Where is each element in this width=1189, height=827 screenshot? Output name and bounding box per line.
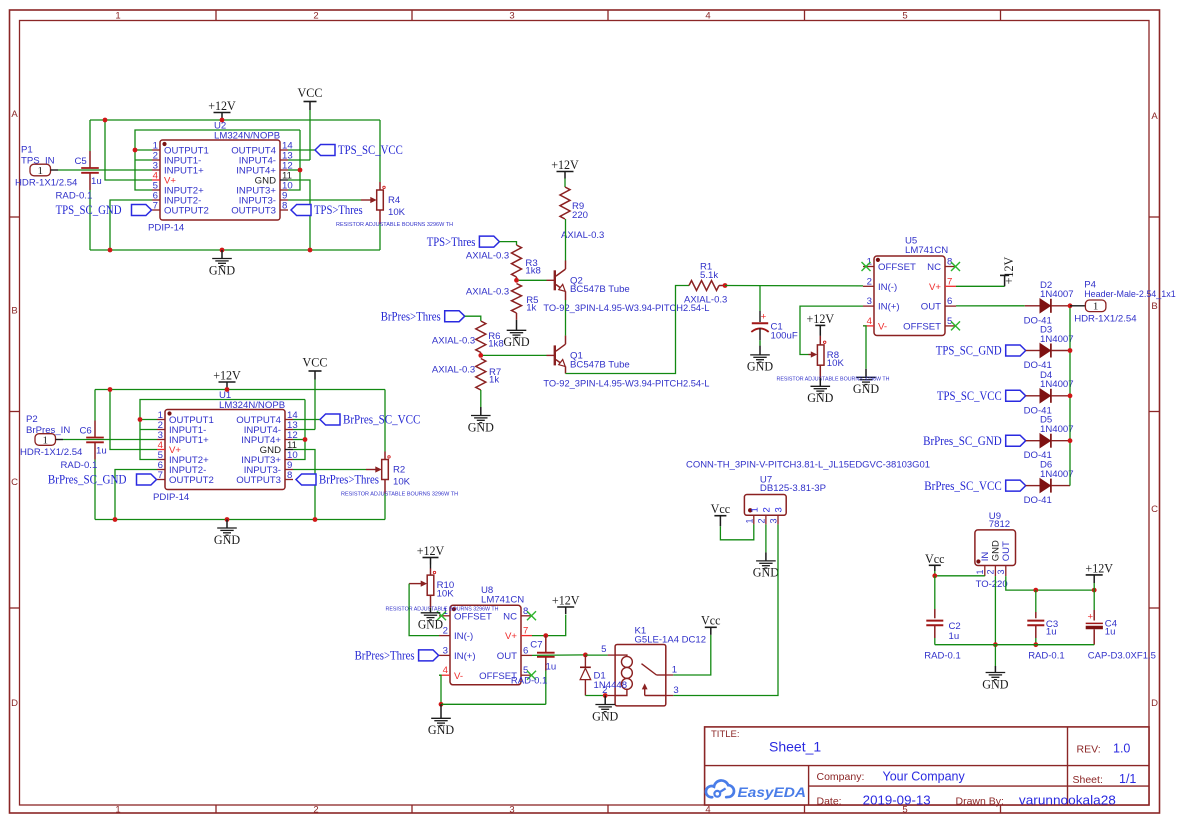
svg-text:2019-09-13: 2019-09-13 bbox=[863, 794, 931, 808]
no-connect X pin5 U5 bbox=[951, 321, 960, 330]
svg-text:GND: GND bbox=[982, 676, 1008, 691]
wire R1 to U5 IN- and C1 bbox=[725, 285, 863, 287]
svg-text:+12V: +12V bbox=[552, 593, 580, 608]
svg-text:PDIP-14: PDIP-14 bbox=[153, 492, 190, 503]
svg-text:IN(+): IN(+) bbox=[878, 302, 900, 313]
svg-text:TPS_SC_VCC: TPS_SC_VCC bbox=[338, 142, 403, 157]
wire Q1 emitter to R1 bbox=[566, 286, 690, 374]
svg-text:TITLE:: TITLE: bbox=[711, 729, 740, 740]
svg-text:AXIAL-0.3: AXIAL-0.3 bbox=[466, 251, 509, 262]
svg-text:1: 1 bbox=[42, 434, 48, 446]
node C4 top junction bbox=[1092, 588, 1097, 593]
ground R10 bbox=[418, 608, 443, 632]
svg-text:3: 3 bbox=[673, 685, 678, 696]
svg-text:+12V: +12V bbox=[208, 98, 236, 113]
svg-text:LM324N/NOPB: LM324N/NOPB bbox=[214, 131, 280, 142]
svg-text:C: C bbox=[11, 477, 18, 488]
svg-text:C5: C5 bbox=[75, 156, 87, 167]
svg-text:D: D bbox=[11, 698, 18, 709]
svg-text:1.0: 1.0 bbox=[1113, 742, 1130, 756]
wire U8 V+ to +12V bbox=[532, 615, 566, 636]
svg-text:1k8: 1k8 bbox=[525, 265, 540, 276]
svg-text:7: 7 bbox=[153, 201, 158, 212]
svg-text:+: + bbox=[761, 311, 767, 322]
diode D1 1N4448 bbox=[580, 655, 627, 695]
svg-text:TPS>Thres: TPS>Thres bbox=[314, 202, 363, 217]
svg-text:V+: V+ bbox=[929, 282, 941, 293]
svg-text:1: 1 bbox=[115, 805, 120, 816]
resistor R5 1k bbox=[466, 284, 539, 320]
svg-text:6: 6 bbox=[523, 645, 528, 656]
svg-text:1N4007: 1N4007 bbox=[1040, 424, 1074, 435]
resistor R3 1k8 bbox=[466, 245, 541, 280]
svg-text:10K: 10K bbox=[437, 588, 455, 599]
svg-text:TO-92_3PIN-L4.95-W3.94-PITCH2.: TO-92_3PIN-L4.95-W3.94-PITCH2.54-L bbox=[543, 378, 709, 389]
capacitor C5 bbox=[56, 151, 102, 201]
label TO-92 Q1 bbox=[543, 378, 709, 389]
ground U5 V- bbox=[853, 369, 879, 396]
potentiometer R2 10K bbox=[341, 452, 458, 498]
net flag BrPres>Thres to R6 bbox=[381, 308, 465, 323]
svg-text:VCC: VCC bbox=[298, 85, 323, 100]
U1 section wires bbox=[63, 380, 385, 520]
svg-text:1k: 1k bbox=[526, 303, 536, 314]
op-amp U5 LM741CN bbox=[863, 236, 956, 336]
wire Vcc to U9 IN bbox=[935, 571, 985, 576]
svg-text:1: 1 bbox=[749, 507, 760, 512]
U2 junction dots bbox=[103, 118, 313, 253]
svg-text:RESISTOR ADJUSTABLE BOURNS 329: RESISTOR ADJUSTABLE BOURNS 3296W TH bbox=[341, 492, 458, 498]
wire R9 to Q2 collector bbox=[565, 219, 567, 261]
svg-text:V+: V+ bbox=[505, 631, 517, 642]
svg-text:1: 1 bbox=[115, 11, 120, 22]
svg-text:EasyEDA: EasyEDA bbox=[738, 784, 807, 800]
svg-text:1k: 1k bbox=[489, 375, 499, 386]
svg-text:4: 4 bbox=[705, 11, 710, 22]
svg-text:RESISTOR ADJUSTABLE BOURNS 329: RESISTOR ADJUSTABLE BOURNS 3296W TH bbox=[336, 222, 453, 228]
resistor R7 1k bbox=[432, 359, 501, 408]
svg-text:Vcc: Vcc bbox=[701, 612, 721, 627]
resistor R9 220 bbox=[560, 179, 604, 242]
net flag TPS>Thres pin8 U2 bbox=[291, 202, 363, 217]
svg-text:GND: GND bbox=[214, 532, 240, 547]
svg-text:HDR-1X1/2.54: HDR-1X1/2.54 bbox=[1074, 314, 1137, 325]
Vcc power K1 bbox=[701, 612, 721, 635]
wire gnd stub bbox=[994, 645, 996, 666]
node U8 V- junction bbox=[439, 702, 444, 707]
ground R5 bbox=[503, 320, 529, 349]
svg-text:GND: GND bbox=[418, 618, 443, 632]
capacitor C2 1u bbox=[924, 576, 960, 662]
no-connect X pin1 U5 bbox=[862, 262, 871, 271]
svg-text:+: + bbox=[1087, 612, 1093, 623]
potentiometer R8 10K bbox=[777, 336, 890, 382]
op-amp U8 LM741CN bbox=[439, 585, 532, 685]
wire V- node to C7 bottom bbox=[441, 703, 546, 705]
svg-text:OFFSET: OFFSET bbox=[903, 322, 941, 333]
svg-text:Vcc: Vcc bbox=[925, 551, 945, 566]
svg-text:+12V: +12V bbox=[807, 311, 835, 326]
connector U7 DB125-3.81-3P bbox=[686, 459, 930, 524]
svg-text:A: A bbox=[1151, 111, 1158, 122]
svg-text:10K: 10K bbox=[388, 207, 406, 218]
wire U7 pin2 to ground bbox=[765, 524, 767, 552]
svg-text:10K: 10K bbox=[393, 477, 411, 488]
ground R7 bbox=[468, 407, 494, 434]
svg-text:6: 6 bbox=[947, 296, 952, 307]
svg-text:1N4448: 1N4448 bbox=[594, 680, 628, 691]
svg-text:LM741CN: LM741CN bbox=[905, 245, 948, 256]
svg-text:+12V: +12V bbox=[1001, 256, 1016, 284]
svg-text:CONN-TH_3PIN-V-PITCH3.81-L_JL1: CONN-TH_3PIN-V-PITCH3.81-L_JL15EDGVC-381… bbox=[686, 459, 930, 469]
svg-text:2: 2 bbox=[313, 11, 318, 22]
svg-text:5.1k: 5.1k bbox=[700, 270, 718, 281]
VCC power U2 bbox=[298, 85, 323, 110]
svg-text:LM741CN: LM741CN bbox=[481, 594, 524, 605]
svg-text:1: 1 bbox=[744, 518, 754, 523]
net flag BrPres>Thres U8 IN+ bbox=[355, 648, 439, 663]
svg-text:OFFSET: OFFSET bbox=[454, 611, 492, 622]
capacitor C3 1u bbox=[1027, 590, 1064, 662]
svg-text:GND: GND bbox=[209, 262, 235, 277]
node D1 top junction bbox=[583, 653, 588, 658]
svg-text:10K: 10K bbox=[827, 358, 845, 369]
svg-text:1N4007: 1N4007 bbox=[1040, 289, 1074, 300]
no-connect X pin8 U8 bbox=[527, 611, 536, 620]
svg-text:3: 3 bbox=[774, 507, 785, 512]
ground C1 bbox=[747, 346, 773, 374]
svg-text:OUTPUT3: OUTPUT3 bbox=[231, 206, 276, 217]
svg-text:1N4007: 1N4007 bbox=[1040, 334, 1074, 345]
svg-text:3: 3 bbox=[867, 296, 872, 307]
no-connect X pin5 U8 bbox=[527, 671, 536, 680]
svg-text:V-: V- bbox=[454, 671, 463, 682]
svg-text:+12V: +12V bbox=[551, 157, 579, 172]
wire flag to R6 bbox=[465, 316, 481, 321]
wire R3 junction to Q2 base bbox=[519, 279, 547, 281]
resistor R1 5.1k bbox=[684, 261, 727, 305]
svg-text:OUTPUT2: OUTPUT2 bbox=[164, 206, 209, 217]
svg-text:OFFSET: OFFSET bbox=[878, 262, 916, 273]
header P2 BrPres_IN bbox=[20, 414, 83, 458]
svg-text:8: 8 bbox=[287, 470, 292, 481]
svg-text:GND: GND bbox=[807, 390, 833, 405]
net flag BrPres_SC_VCC pin14 U1 bbox=[320, 412, 420, 427]
wire U9 GND down bbox=[994, 576, 996, 645]
svg-text:3: 3 bbox=[509, 805, 514, 816]
+12V power U1 rail bbox=[213, 368, 241, 390]
ground U2 rail bbox=[209, 250, 235, 277]
wire diode cathode bus bbox=[1069, 306, 1071, 486]
node U9 gnd rail junction bbox=[993, 642, 998, 647]
svg-text:A: A bbox=[11, 109, 18, 120]
ground U8 V- bbox=[428, 704, 454, 737]
svg-text:1: 1 bbox=[37, 165, 43, 177]
wire flag to R3 bbox=[499, 242, 516, 245]
svg-text:AXIAL-0.3: AXIAL-0.3 bbox=[561, 230, 604, 241]
svg-text:1u: 1u bbox=[96, 446, 107, 457]
svg-text:RAD-0.1: RAD-0.1 bbox=[56, 190, 93, 201]
svg-text:BrPres_SC_GND: BrPres_SC_GND bbox=[48, 472, 127, 487]
wire U7 pin1 to Vcc bbox=[720, 524, 753, 539]
svg-text:Header-Male-2.54_1x1: Header-Male-2.54_1x1 bbox=[1084, 289, 1176, 300]
svg-text:DB125-3.81-3P: DB125-3.81-3P bbox=[760, 483, 826, 494]
svg-text:BrPres>Thres: BrPres>Thres bbox=[319, 472, 379, 487]
svg-text:2: 2 bbox=[985, 569, 995, 574]
svg-text:100uF: 100uF bbox=[771, 331, 798, 342]
svg-text:1u: 1u bbox=[91, 176, 102, 187]
svg-text:RAD-0.1: RAD-0.1 bbox=[924, 651, 960, 662]
svg-text:2: 2 bbox=[443, 626, 448, 637]
wire U9 OUT to +12V rail bbox=[1006, 576, 1094, 590]
svg-text:1u: 1u bbox=[546, 662, 557, 673]
svg-text:LM324N/NOPB: LM324N/NOPB bbox=[219, 400, 285, 411]
svg-text:BC547B Tube: BC547B Tube bbox=[570, 359, 630, 370]
svg-text:1: 1 bbox=[1093, 301, 1099, 313]
svg-text:RAD-0.1: RAD-0.1 bbox=[1028, 651, 1064, 662]
node R1 output junction bbox=[723, 283, 728, 288]
svg-text:BrPres>Thres: BrPres>Thres bbox=[381, 308, 441, 323]
svg-text:2: 2 bbox=[756, 518, 766, 523]
svg-text:7: 7 bbox=[947, 276, 952, 287]
svg-text:BrPres_SC_VCC: BrPres_SC_VCC bbox=[924, 478, 1001, 493]
svg-text:RESISTOR ADJUSTABLE BOURNS 329: RESISTOR ADJUSTABLE BOURNS 3296W TH bbox=[386, 606, 499, 612]
svg-text:OUT: OUT bbox=[497, 651, 517, 662]
node C7 top junction bbox=[543, 633, 548, 638]
svg-text:8: 8 bbox=[282, 201, 287, 212]
svg-text:TO-220: TO-220 bbox=[976, 579, 1008, 590]
svg-text:G5LE-1A4 DC12: G5LE-1A4 DC12 bbox=[635, 634, 707, 645]
svg-text:VCC: VCC bbox=[303, 355, 328, 370]
svg-text:7: 7 bbox=[523, 626, 528, 637]
svg-text:GND: GND bbox=[990, 540, 1001, 561]
resistor R6 1k8 bbox=[432, 321, 504, 355]
net flag TPS>Thres to R3 bbox=[427, 234, 500, 249]
wire +12V stub bbox=[1093, 583, 1095, 590]
svg-text:1k8: 1k8 bbox=[488, 339, 503, 350]
wire U8 OUT to relay node bbox=[532, 654, 585, 657]
svg-text:DO-41: DO-41 bbox=[1024, 495, 1052, 506]
svg-text:1u: 1u bbox=[1046, 627, 1057, 638]
svg-text:GND: GND bbox=[468, 419, 494, 434]
svg-text:GND: GND bbox=[853, 381, 879, 396]
svg-text:IN(-): IN(-) bbox=[878, 282, 897, 293]
svg-text:varunnookala28: varunnookala28 bbox=[1019, 794, 1116, 808]
svg-text:BrPres_SC_VCC: BrPres_SC_VCC bbox=[343, 412, 420, 427]
svg-text:Sheet:: Sheet: bbox=[1073, 774, 1103, 786]
capacitor C6 bbox=[61, 421, 107, 471]
svg-text:IN(-): IN(-) bbox=[454, 631, 473, 642]
wire U8 V- to ground node bbox=[439, 675, 441, 704]
svg-text:Company:: Company: bbox=[817, 771, 865, 783]
svg-text:OUT: OUT bbox=[921, 302, 941, 313]
wire U5 V- to ground bbox=[863, 326, 866, 369]
wire U5 OUT red segment bbox=[1025, 305, 1040, 307]
svg-text:Drawn By:: Drawn By: bbox=[956, 795, 1004, 807]
net flag BrPres>Thres pin8 U1 bbox=[296, 472, 379, 487]
ground U7 pin2 bbox=[753, 552, 779, 579]
svg-text:Date:: Date: bbox=[817, 795, 842, 807]
svg-text:1/1: 1/1 bbox=[1119, 772, 1136, 786]
svg-text:3: 3 bbox=[769, 518, 779, 523]
svg-text:NC: NC bbox=[927, 262, 941, 273]
transistor Q1 BC547B bbox=[547, 336, 630, 374]
svg-text:RESISTOR ADJUSTABLE BOURNS 329: RESISTOR ADJUSTABLE BOURNS 3296W TH bbox=[777, 376, 890, 382]
svg-text:2: 2 bbox=[867, 276, 872, 287]
svg-text:1: 1 bbox=[672, 665, 677, 676]
svg-text:RAD-0.1: RAD-0.1 bbox=[511, 675, 547, 686]
svg-text:GND: GND bbox=[428, 722, 454, 737]
EasyEDA logo bbox=[706, 780, 806, 799]
svg-text:1: 1 bbox=[975, 569, 985, 574]
U1 junction dots bbox=[108, 387, 318, 522]
svg-text:IN(+): IN(+) bbox=[454, 651, 476, 662]
svg-text:GND: GND bbox=[503, 334, 529, 349]
svg-text:R4: R4 bbox=[388, 195, 401, 206]
svg-text:B: B bbox=[11, 306, 17, 317]
net flag TPS_SC_GND pin7 U2 bbox=[56, 202, 152, 217]
+12V power U8 bbox=[552, 593, 580, 615]
diode D3 1N4007 bbox=[936, 325, 1074, 372]
svg-text:OUTPUT2: OUTPUT2 bbox=[169, 475, 214, 486]
svg-text:+12V: +12V bbox=[1085, 560, 1113, 575]
capacitor C1 100uF bbox=[751, 286, 798, 346]
svg-text:1u: 1u bbox=[1105, 627, 1116, 638]
VCC power U1 bbox=[303, 355, 328, 380]
svg-text:R2: R2 bbox=[393, 465, 405, 476]
transistor Q2 BC547B bbox=[547, 261, 630, 301]
wire R10 wiper to U8 IN- bbox=[409, 584, 439, 636]
wire U5 IN+ to R8 wiper bbox=[800, 306, 863, 354]
svg-text:IN: IN bbox=[980, 552, 991, 562]
svg-text:P1: P1 bbox=[21, 145, 33, 156]
+12V power U2 rail bbox=[208, 98, 236, 120]
regulator U9 7812 bbox=[975, 511, 1016, 590]
svg-text:P2: P2 bbox=[26, 414, 38, 425]
svg-text:AXIAL-0.3: AXIAL-0.3 bbox=[684, 295, 727, 306]
no-connect X pin1 U8 bbox=[437, 611, 446, 620]
relay K1 G5LE-1A4 bbox=[601, 626, 706, 706]
svg-text:AXIAL-0.3: AXIAL-0.3 bbox=[432, 365, 475, 376]
ground U1 rail bbox=[214, 520, 240, 547]
node Vcc C2 junction bbox=[932, 573, 937, 578]
wire gnd rail U9 bbox=[935, 644, 1094, 646]
svg-text:BrPres_SC_GND: BrPres_SC_GND bbox=[923, 433, 1002, 448]
svg-text:C6: C6 bbox=[80, 426, 92, 437]
svg-text:4: 4 bbox=[705, 805, 710, 816]
label TO-92 Q2 bbox=[543, 303, 709, 314]
capacitor C4 1u bbox=[1086, 590, 1156, 662]
svg-text:3: 3 bbox=[443, 645, 448, 656]
svg-text:3: 3 bbox=[509, 11, 514, 22]
svg-text:GND: GND bbox=[753, 565, 779, 580]
svg-text:HDR-1X1/2.54: HDR-1X1/2.54 bbox=[20, 447, 83, 458]
svg-text:220: 220 bbox=[572, 210, 588, 221]
no-connect X pin8 U5 bbox=[951, 262, 960, 271]
svg-text:TPS_SC_GND: TPS_SC_GND bbox=[936, 343, 1002, 358]
header P4 Header-Male bbox=[1070, 280, 1176, 325]
net flag BrPres_SC_GND pin7 U1 bbox=[48, 472, 157, 487]
svg-text:V-: V- bbox=[878, 322, 887, 333]
diode D6 1N4007 bbox=[924, 460, 1073, 507]
svg-text:OUTPUT3: OUTPUT3 bbox=[236, 475, 281, 486]
+12V power R8 bbox=[807, 311, 835, 336]
svg-text:REV:: REV: bbox=[1077, 744, 1101, 756]
potentiometer R10 10K bbox=[386, 565, 499, 613]
svg-text:TPS_SC_GND: TPS_SC_GND bbox=[56, 202, 122, 217]
svg-text:PDIP-14: PDIP-14 bbox=[148, 223, 185, 234]
diode D4 1N4007 bbox=[937, 370, 1074, 417]
svg-text:+12V: +12V bbox=[417, 543, 445, 558]
svg-text:Your Company: Your Company bbox=[883, 770, 966, 784]
svg-text:NC: NC bbox=[503, 611, 517, 622]
wire OUT node to relay pin5 bbox=[585, 654, 607, 656]
ground U9 bbox=[982, 666, 1008, 691]
svg-text:4: 4 bbox=[443, 665, 449, 676]
op-amp U1 LM324N/NOPB bbox=[153, 390, 298, 503]
node C3 bottom junction bbox=[1033, 642, 1038, 647]
svg-text:RAD-0.1: RAD-0.1 bbox=[61, 460, 98, 471]
svg-text:TPS_SC_VCC: TPS_SC_VCC bbox=[937, 388, 1002, 403]
title block bbox=[705, 727, 1149, 808]
wire U5 OUT to D2 bbox=[956, 305, 1025, 307]
svg-text:1u: 1u bbox=[949, 631, 960, 642]
svg-text:AXIAL-0.3: AXIAL-0.3 bbox=[432, 336, 475, 347]
svg-text:BC547B Tube: BC547B Tube bbox=[570, 284, 630, 295]
svg-text:BrPres>Thres: BrPres>Thres bbox=[355, 648, 415, 663]
svg-text:OUT: OUT bbox=[1001, 541, 1012, 561]
svg-text:2: 2 bbox=[313, 805, 318, 816]
header P1 TPS_IN bbox=[15, 145, 78, 189]
svg-text:7: 7 bbox=[158, 470, 163, 481]
U2 section wires bbox=[58, 110, 380, 250]
+12V power U9 output bbox=[1085, 560, 1113, 583]
op-amp U2 LM324N/NOPB bbox=[148, 121, 293, 234]
svg-text:B: B bbox=[1151, 301, 1157, 312]
wire Q2 emitter to Q1 collector bbox=[565, 300, 567, 336]
svg-text:GND: GND bbox=[592, 708, 618, 723]
+12V power R9 bbox=[551, 157, 579, 179]
wire D1 bottom to relay pin2 bbox=[585, 695, 607, 697]
svg-text:3: 3 bbox=[996, 569, 1006, 574]
+12V power U5 V+ (rotated) bbox=[956, 256, 1016, 286]
svg-text:HDR-1X1/2.54: HDR-1X1/2.54 bbox=[15, 178, 78, 189]
svg-text:1N4007: 1N4007 bbox=[1040, 469, 1074, 480]
Vcc power U7 bbox=[711, 501, 731, 526]
wire U7 pin3 to relay bbox=[673, 524, 778, 695]
node relay pin2 ground junction bbox=[603, 693, 608, 698]
svg-text:TPS>Thres: TPS>Thres bbox=[427, 234, 476, 249]
potentiometer R4 10K bbox=[336, 182, 453, 228]
node R3-R5 junction bbox=[514, 278, 519, 283]
diode bus junction dots bbox=[1068, 303, 1073, 443]
svg-text:2: 2 bbox=[761, 507, 772, 512]
capacitor C7 1u bbox=[511, 636, 556, 705]
svg-text:GND: GND bbox=[747, 359, 773, 374]
wire relay pin1 to Vcc bbox=[673, 635, 711, 675]
node R6-R7 junction bbox=[478, 353, 483, 358]
svg-text:5: 5 bbox=[601, 644, 606, 655]
svg-text:5: 5 bbox=[902, 11, 907, 22]
svg-text:Sheet_1: Sheet_1 bbox=[769, 739, 821, 755]
diode D2 1N4007 bbox=[1024, 280, 1074, 327]
svg-text:4: 4 bbox=[867, 316, 873, 327]
svg-text:D: D bbox=[1151, 698, 1158, 709]
svg-text:C: C bbox=[1151, 504, 1158, 515]
svg-text:1N4007: 1N4007 bbox=[1040, 379, 1074, 390]
svg-text:7812: 7812 bbox=[989, 519, 1010, 530]
svg-text:AXIAL-0.3: AXIAL-0.3 bbox=[466, 287, 509, 298]
